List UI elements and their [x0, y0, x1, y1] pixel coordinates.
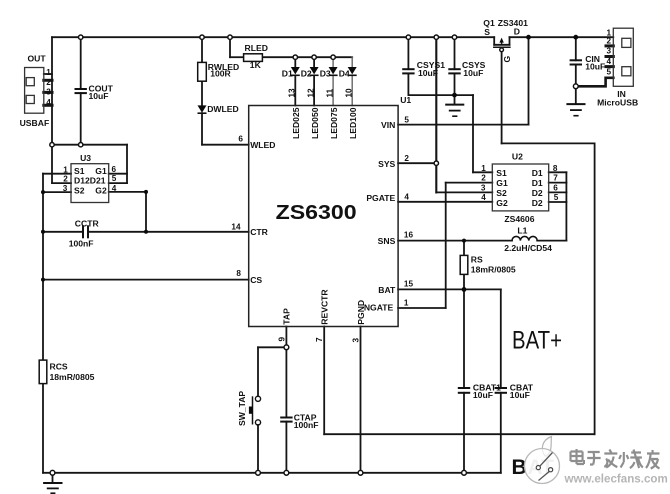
svg-text:15: 15	[404, 279, 414, 288]
svg-text:LED075: LED075	[329, 107, 339, 139]
svg-text:REVCTR: REVCTR	[320, 289, 330, 325]
svg-text:NGATE: NGATE	[364, 302, 394, 312]
svg-text:4: 4	[112, 184, 117, 193]
svg-text:U3: U3	[80, 153, 91, 163]
svg-text:S1: S1	[74, 166, 85, 176]
svg-text:RCS: RCS	[50, 361, 68, 371]
svg-text:S: S	[484, 27, 490, 37]
svg-text:WLED: WLED	[250, 140, 275, 150]
svg-text:BAT+: BAT+	[512, 326, 562, 354]
svg-text:10uF: 10uF	[473, 390, 493, 400]
svg-text:1: 1	[46, 68, 51, 77]
svg-text:100nF: 100nF	[294, 420, 319, 430]
svg-text:4: 4	[481, 193, 486, 202]
svg-text:LED100: LED100	[348, 107, 358, 139]
svg-text:G2: G2	[95, 185, 107, 195]
svg-text:G2: G2	[496, 198, 508, 208]
svg-text:S1: S1	[496, 168, 507, 178]
svg-text:VIN: VIN	[381, 120, 395, 130]
svg-text:2: 2	[63, 175, 68, 184]
svg-text:2: 2	[46, 78, 51, 87]
svg-text:18mR/0805: 18mR/0805	[471, 264, 516, 274]
svg-text:1K: 1K	[250, 60, 262, 70]
svg-text:ZS4606: ZS4606	[504, 214, 534, 224]
svg-text:2: 2	[404, 154, 409, 163]
svg-text:D: D	[514, 26, 520, 36]
svg-text:10uF: 10uF	[510, 390, 530, 400]
svg-text:D1: D1	[532, 168, 543, 178]
svg-text:LED050: LED050	[310, 107, 320, 139]
svg-text:TAP: TAP	[282, 308, 292, 325]
svg-text:SNS: SNS	[378, 236, 396, 246]
svg-text:2.2uH/CD54: 2.2uH/CD54	[504, 243, 552, 253]
svg-text:MicroUSB: MicroUSB	[597, 97, 638, 107]
svg-text:www.elecfans.com: www.elecfans.com	[564, 472, 668, 485]
svg-text:PGND: PGND	[356, 300, 366, 325]
svg-text:8: 8	[236, 269, 241, 278]
svg-text:U2: U2	[512, 152, 523, 162]
svg-text:3: 3	[481, 183, 486, 192]
svg-text:4: 4	[46, 98, 51, 107]
svg-text:LED025: LED025	[291, 107, 301, 139]
svg-text:ZS6300: ZS6300	[276, 201, 357, 224]
svg-text:6: 6	[553, 183, 558, 192]
svg-text:8: 8	[553, 164, 558, 173]
svg-text:16: 16	[404, 230, 414, 239]
svg-text:PGATE: PGATE	[366, 193, 395, 203]
svg-text:1: 1	[404, 299, 409, 308]
svg-text:18mR/0805: 18mR/0805	[50, 372, 95, 382]
svg-text:G1: G1	[95, 166, 107, 176]
svg-text:DWLED: DWLED	[207, 104, 239, 114]
svg-text:10uF: 10uF	[89, 91, 109, 101]
svg-text:2: 2	[607, 37, 612, 46]
svg-text:D4: D4	[339, 68, 350, 78]
svg-text:G: G	[502, 56, 512, 63]
svg-text:D2: D2	[301, 68, 312, 78]
svg-text:100R: 100R	[210, 69, 231, 79]
svg-text:D3: D3	[320, 68, 331, 78]
svg-text:L1: L1	[517, 226, 527, 236]
svg-text:SW_TAP: SW_TAP	[237, 391, 247, 426]
svg-text:CCTR: CCTR	[75, 219, 100, 229]
svg-text:SYS: SYS	[378, 159, 395, 169]
svg-text:5: 5	[404, 116, 409, 125]
svg-text:U1: U1	[400, 95, 411, 105]
svg-text:6: 6	[238, 134, 243, 143]
svg-text:12: 12	[306, 88, 315, 98]
svg-text:D12D21: D12D21	[74, 176, 106, 186]
svg-text:D2: D2	[532, 198, 543, 208]
svg-text:1: 1	[481, 164, 486, 173]
svg-text:10uF: 10uF	[585, 61, 605, 71]
svg-text:5: 5	[607, 67, 612, 76]
svg-text:100nF: 100nF	[69, 238, 94, 248]
svg-text:11: 11	[325, 88, 334, 97]
svg-text:RLED: RLED	[245, 43, 268, 53]
svg-text:10uF: 10uF	[418, 68, 438, 78]
svg-text:3: 3	[63, 184, 68, 193]
svg-text:D1: D1	[532, 178, 543, 188]
svg-text:5: 5	[112, 174, 117, 183]
svg-text:CTR: CTR	[250, 227, 268, 237]
svg-text:4: 4	[607, 57, 612, 66]
svg-text:D1: D1	[282, 68, 293, 78]
svg-text:S2: S2	[74, 185, 85, 195]
svg-text:7: 7	[553, 174, 558, 183]
svg-text:CS: CS	[250, 275, 262, 285]
svg-text:9: 9	[277, 337, 286, 342]
svg-text:14: 14	[231, 222, 241, 231]
svg-text:S2: S2	[496, 188, 507, 198]
svg-text:OUT: OUT	[28, 53, 47, 63]
svg-text:BAT: BAT	[378, 285, 396, 295]
svg-text:2: 2	[481, 174, 486, 183]
svg-text:3: 3	[607, 47, 612, 56]
svg-text:3: 3	[351, 338, 360, 343]
svg-text:3: 3	[46, 88, 51, 97]
svg-text:13: 13	[288, 88, 297, 98]
svg-text:4: 4	[404, 192, 409, 201]
svg-text:7: 7	[315, 337, 324, 342]
svg-text:10: 10	[344, 88, 353, 98]
svg-text:RS: RS	[471, 254, 483, 264]
svg-text:1: 1	[63, 165, 68, 174]
svg-text:6: 6	[112, 165, 117, 174]
svg-text:G1: G1	[496, 178, 508, 188]
svg-text:10uF: 10uF	[463, 68, 483, 78]
svg-text:D2: D2	[532, 188, 543, 198]
svg-text:USBAF: USBAF	[20, 118, 50, 128]
svg-text:5: 5	[554, 193, 559, 202]
